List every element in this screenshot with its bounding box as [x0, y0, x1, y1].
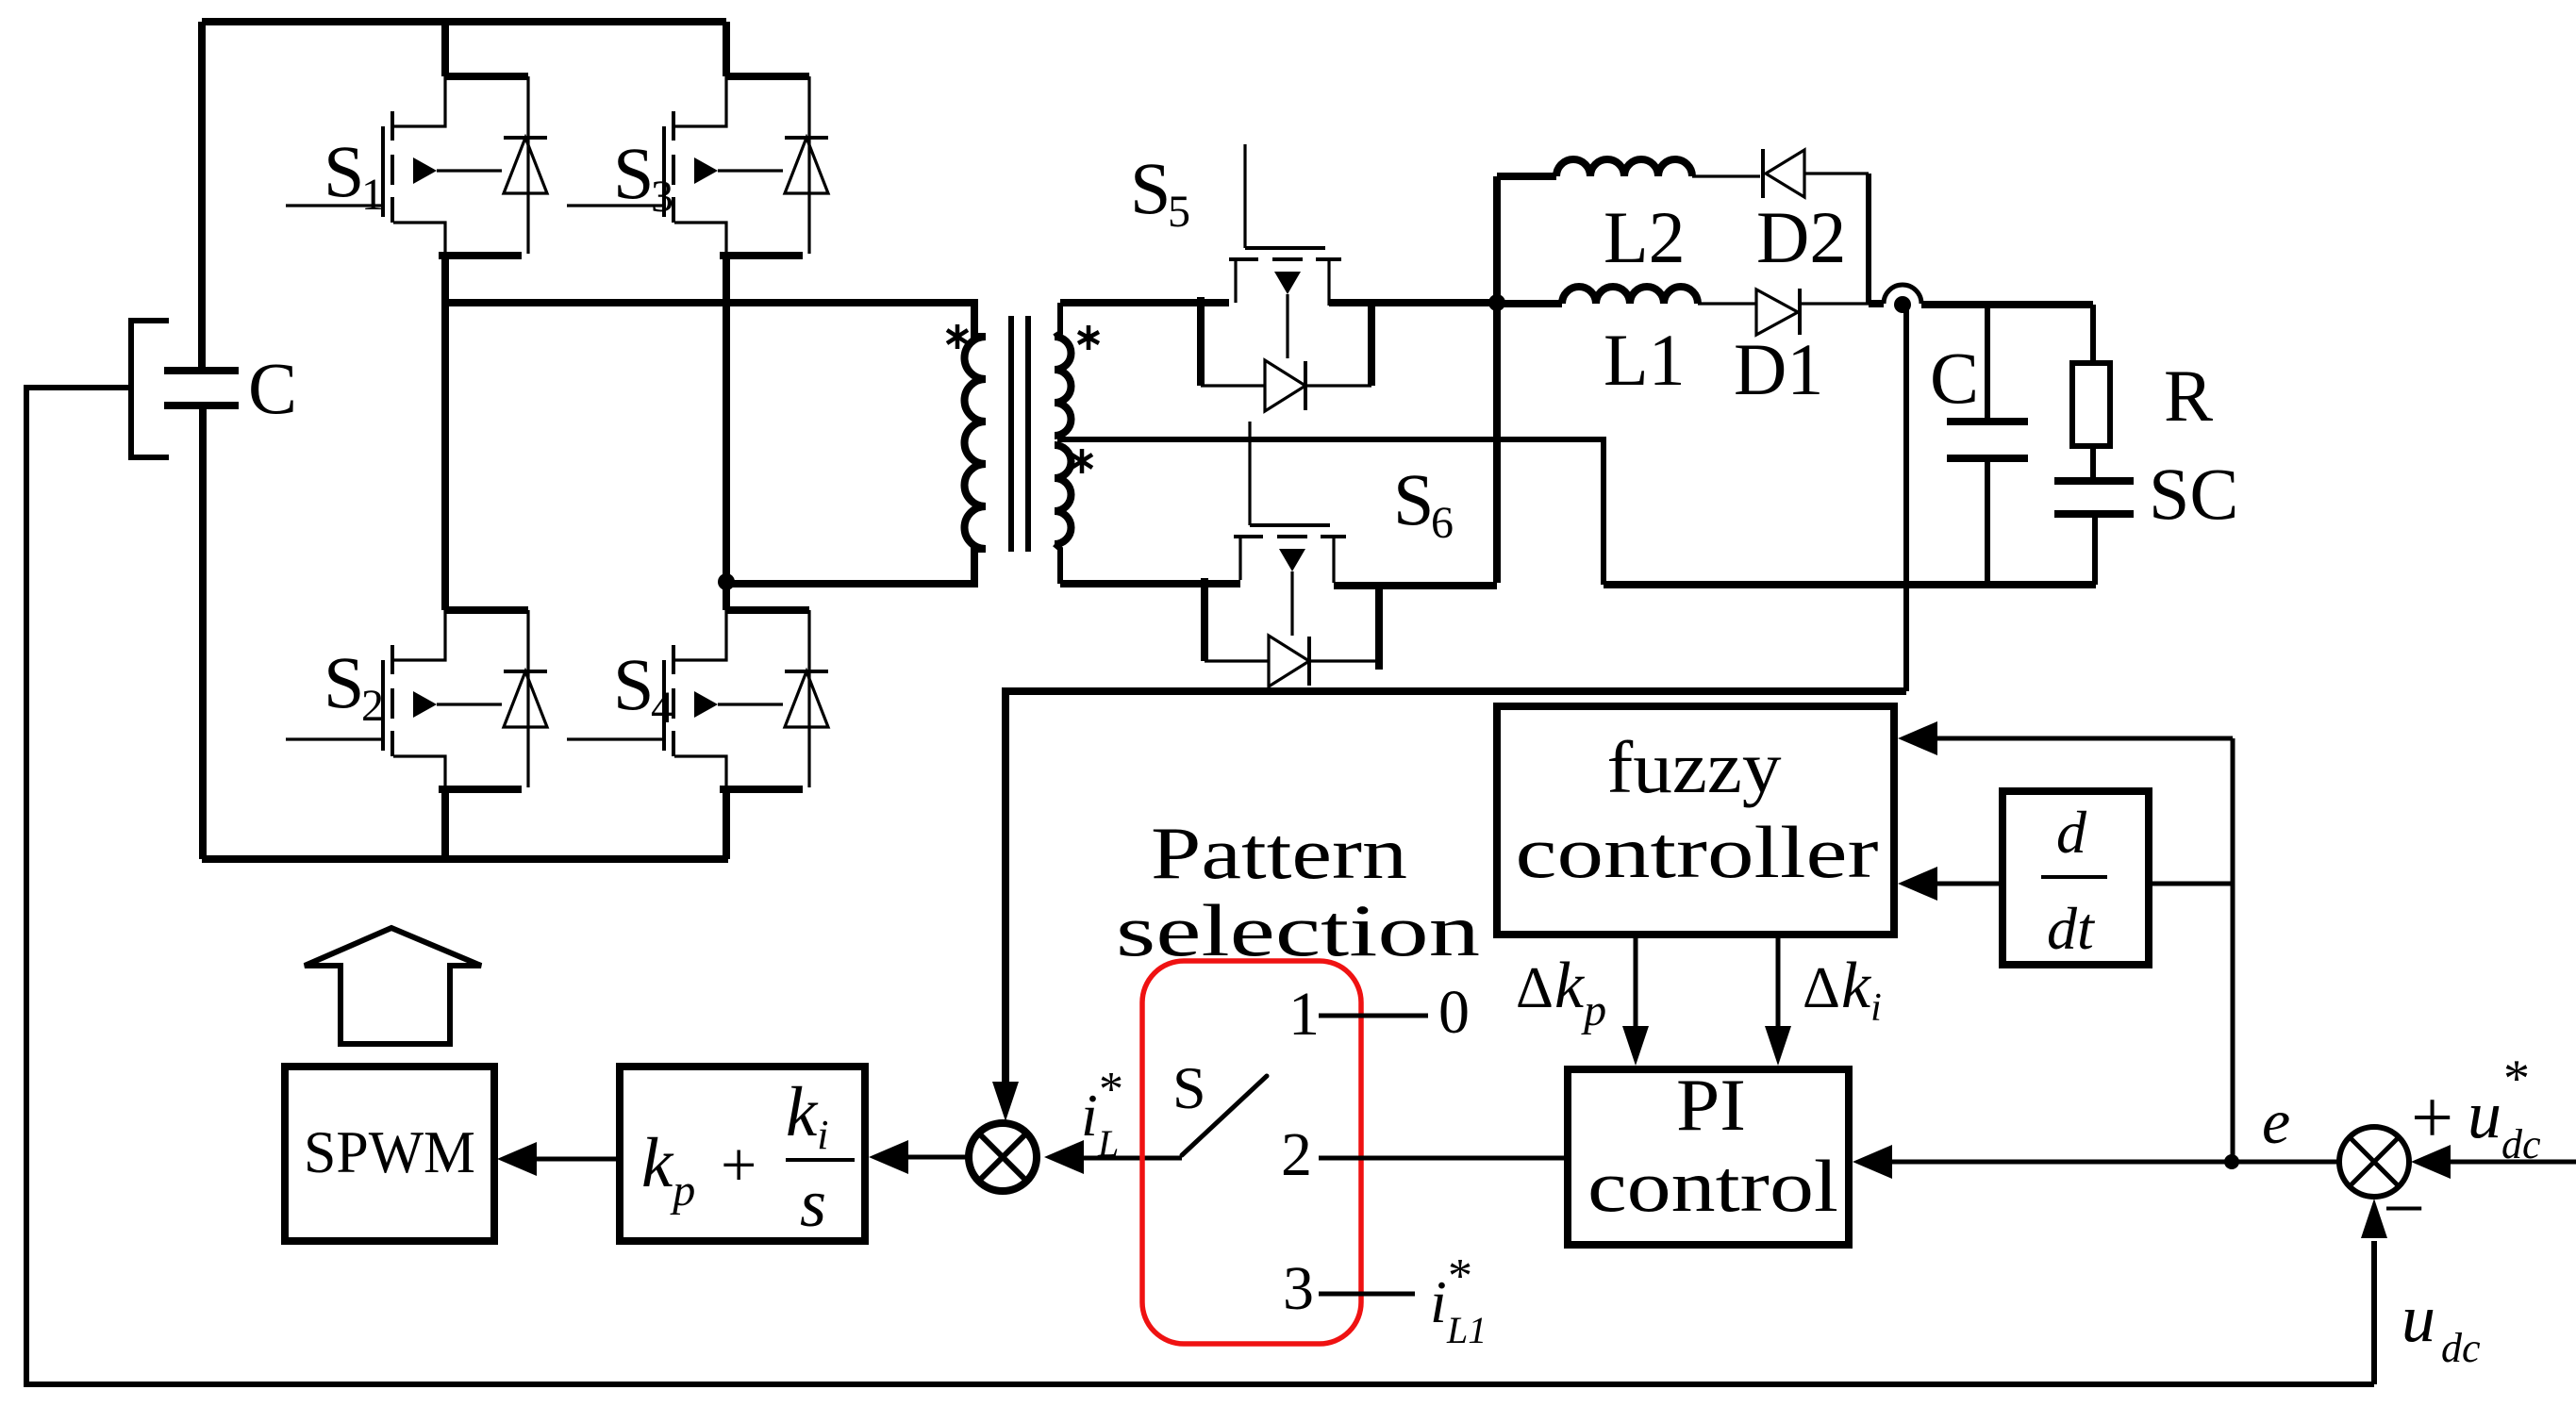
svg-text:+: + [2411, 1077, 2453, 1160]
svg-text:L1: L1 [1446, 1309, 1487, 1351]
svg-text:S: S [1393, 458, 1434, 540]
wire u_o feedback rail [1005, 691, 1906, 1084]
arrow de/dt into fuzzy bottom input [1898, 867, 2003, 901]
diode D2 [1756, 149, 1846, 278]
svg-text:*: * [1448, 1249, 1472, 1303]
arrow PI-block output into SPWM [497, 1142, 620, 1176]
svg-text:i: i [1430, 1268, 1447, 1335]
polarity mark secondary upper [1078, 325, 1099, 350]
wire S5 source bar [1197, 297, 1205, 386]
svg-text:e: e [2262, 1085, 2290, 1157]
wire S1-S2 midpoint leg [441, 256, 449, 610]
wire L1 to D1 [1698, 302, 1756, 305]
block d/dt [2003, 791, 2149, 965]
wire D2 to output drop [1804, 172, 1869, 174]
transformer primary winding [965, 337, 986, 549]
block kp+ki/s [620, 1067, 865, 1241]
svg-text:s: s [800, 1166, 826, 1241]
wire S4 source leg [723, 789, 730, 859]
svg-text:2: 2 [361, 681, 384, 731]
svg-text:dc: dc [2501, 1121, 2541, 1167]
wire S3-S4 midpoint leg [723, 256, 730, 610]
block SPWM [285, 1067, 494, 1241]
summing junction circle [2339, 1127, 2409, 1197]
svg-text:controller: controller [1516, 811, 1879, 893]
arrow switch common into multiplier [1044, 1140, 1182, 1174]
diode D1 [1734, 289, 1823, 410]
svg-text:SPWM: SPWM [304, 1118, 475, 1185]
svg-text:D1: D1 [1734, 328, 1823, 410]
svg-text:control: control [1587, 1145, 1838, 1227]
wire S5 drain bar [1368, 303, 1375, 386]
inductor L1 [1562, 287, 1698, 401]
pattern selection red box [1142, 961, 1361, 1344]
wire center tap [1057, 439, 1604, 585]
label plus [2411, 1077, 2453, 1160]
wire S3 drain leg [723, 22, 730, 76]
arrow udc* into summing junction [2411, 1145, 2576, 1179]
transformer core [1011, 316, 1028, 552]
svg-text:dc: dc [2441, 1325, 2481, 1371]
wire L2 to D2 [1692, 174, 1760, 177]
arrow udc into summing junction bottom [2361, 1199, 2387, 1384]
label dkp [1516, 950, 1606, 1035]
wire udc feedback bottom [26, 388, 2374, 1384]
wire S1 drain leg [441, 22, 449, 76]
svg-text:Pattern: Pattern [1151, 812, 1407, 894]
wire fuzzy dkp output [1622, 935, 1649, 1066]
svg-text:Δ: Δ [1516, 956, 1554, 1020]
node L junction [1488, 294, 1505, 311]
svg-text:S: S [613, 643, 654, 725]
transistor S5 [1130, 144, 1341, 358]
wire output node to load [1921, 301, 2093, 308]
wire S6 right to node L drop [1334, 582, 1497, 589]
wire node L to L1 [1497, 300, 1562, 307]
transformer secondary lower winding [1055, 445, 1072, 584]
wire secondary top to S5 [1060, 299, 1229, 306]
switch terminal 1 [1288, 978, 1470, 1049]
svg-text:1: 1 [361, 170, 384, 220]
transistor S6 [1234, 422, 1454, 636]
wire node L vertical [1493, 176, 1501, 583]
wire D1 to output node [1800, 302, 1869, 305]
wire left DC rail upper [198, 22, 206, 368]
svg-text:5: 5 [1168, 187, 1190, 237]
output node hop arc [1869, 285, 1921, 304]
transistor S1 [286, 76, 528, 256]
wire bridge midpoint A to transformer primary top [445, 303, 985, 337]
node e junction [2224, 1154, 2239, 1169]
wire S6 drain bar [1201, 578, 1208, 661]
transformer secondary upper winding [1055, 303, 1072, 436]
body diode of S5 [1201, 360, 1371, 411]
svg-text:S: S [324, 641, 364, 723]
svg-text:S: S [324, 130, 364, 212]
label udc* [2468, 1050, 2541, 1167]
svg-text:3: 3 [1283, 1254, 1314, 1323]
svg-text:i: i [1081, 1082, 1098, 1149]
switch S [1172, 1054, 1267, 1155]
body diode of S1 [504, 76, 547, 254]
svg-text:u: u [2468, 1077, 2501, 1152]
svg-text:dt: dt [2047, 895, 2096, 962]
svg-text:C: C [1930, 337, 1979, 419]
wire output sense vertical [1903, 305, 1909, 691]
svg-text:−: − [2383, 1167, 2425, 1250]
wire output return rail [1604, 581, 2096, 588]
body diode of S6 [1205, 636, 1379, 687]
switch terminal 3 [1283, 1254, 1415, 1323]
label iL* reference [1081, 1063, 1123, 1165]
capacitor C (DC link) [131, 321, 297, 457]
label e [2262, 1085, 2290, 1157]
inductor L2 [1556, 159, 1692, 278]
wire d/dt input from e [2149, 882, 2233, 886]
wire S2 source leg [441, 789, 449, 859]
svg-text:fuzzy: fuzzy [1607, 726, 1782, 808]
svg-text:PI: PI [1676, 1064, 1746, 1146]
arrow e into fuzzy top input [1898, 721, 2233, 755]
transistor S4 [567, 610, 809, 789]
polarity mark secondary lower [1072, 449, 1092, 473]
body diode of S4 [785, 610, 828, 787]
svg-text:Δ: Δ [1803, 956, 1840, 1020]
wire bridge midpoint B to transformer primary bottom [726, 549, 985, 584]
multiplier circle [969, 1123, 1037, 1191]
wire e feedback vertical [2231, 738, 2235, 1162]
wire secondary bottom to S6 [1060, 580, 1240, 587]
arrow e into PI control [1853, 1145, 2339, 1179]
svg-text:D2: D2 [1756, 196, 1846, 278]
body diode of S2 [504, 610, 547, 787]
wire L2 branch left [1497, 173, 1556, 180]
svg-text:4: 4 [651, 683, 673, 733]
resistor R [2072, 305, 2213, 481]
label minus [2383, 1167, 2425, 1250]
svg-text:6: 6 [1431, 498, 1454, 548]
svg-text:L1: L1 [1604, 319, 1686, 401]
svg-text:d: d [2056, 799, 2087, 866]
svg-text:R: R [2164, 355, 2213, 437]
block fuzzy controller [1497, 706, 1894, 935]
svg-text:L: L [1097, 1122, 1119, 1165]
svg-text:2: 2 [1281, 1120, 1312, 1189]
switch terminal 2 wire from PI [1281, 1120, 1568, 1189]
arrow u_o into multiplier top [992, 1082, 1019, 1121]
big arrow SPWM to bridge [305, 928, 481, 1044]
svg-text:C: C [248, 347, 297, 429]
label dki [1803, 950, 1882, 1030]
node output junction [1894, 296, 1911, 313]
svg-text:0: 0 [1438, 978, 1470, 1047]
wire S6 source bar [1375, 586, 1383, 670]
svg-text:S: S [1130, 147, 1171, 229]
svg-text:+: + [721, 1129, 756, 1200]
transistor S2 [286, 610, 528, 789]
svg-text:u: u [2401, 1281, 2435, 1356]
node bridge midpoint B junction [718, 573, 735, 590]
capacitor SC [2054, 453, 2238, 585]
label Pattern selection [1116, 812, 1480, 971]
wire left DC rail lower [199, 405, 207, 859]
wire S5 drain to node L [1329, 299, 1497, 306]
transistor S3 [567, 76, 809, 256]
svg-text:*: * [2503, 1050, 2530, 1108]
block PI control [1568, 1064, 1849, 1245]
svg-text:1: 1 [1288, 980, 1320, 1049]
label iL1* reference [1430, 1249, 1487, 1351]
arrow multiplier output into kp+ki/s block [869, 1140, 969, 1174]
polarity mark primary [947, 324, 968, 349]
svg-text:*: * [1099, 1063, 1123, 1117]
wire fuzzy dki output [1765, 935, 1791, 1066]
wire bottom DC rail [202, 855, 728, 863]
svg-text:3: 3 [651, 172, 673, 222]
wire top DC rail [202, 18, 726, 25]
label udc [2401, 1281, 2481, 1371]
svg-text:SC: SC [2149, 453, 2238, 535]
body diode of S3 [785, 76, 828, 254]
svg-text:L2: L2 [1604, 196, 1686, 278]
wire D2 output drop vertical [1866, 174, 1871, 304]
svg-text:S: S [1172, 1054, 1206, 1121]
capacitor C (output) [1930, 305, 2028, 585]
svg-text:S: S [613, 132, 654, 214]
